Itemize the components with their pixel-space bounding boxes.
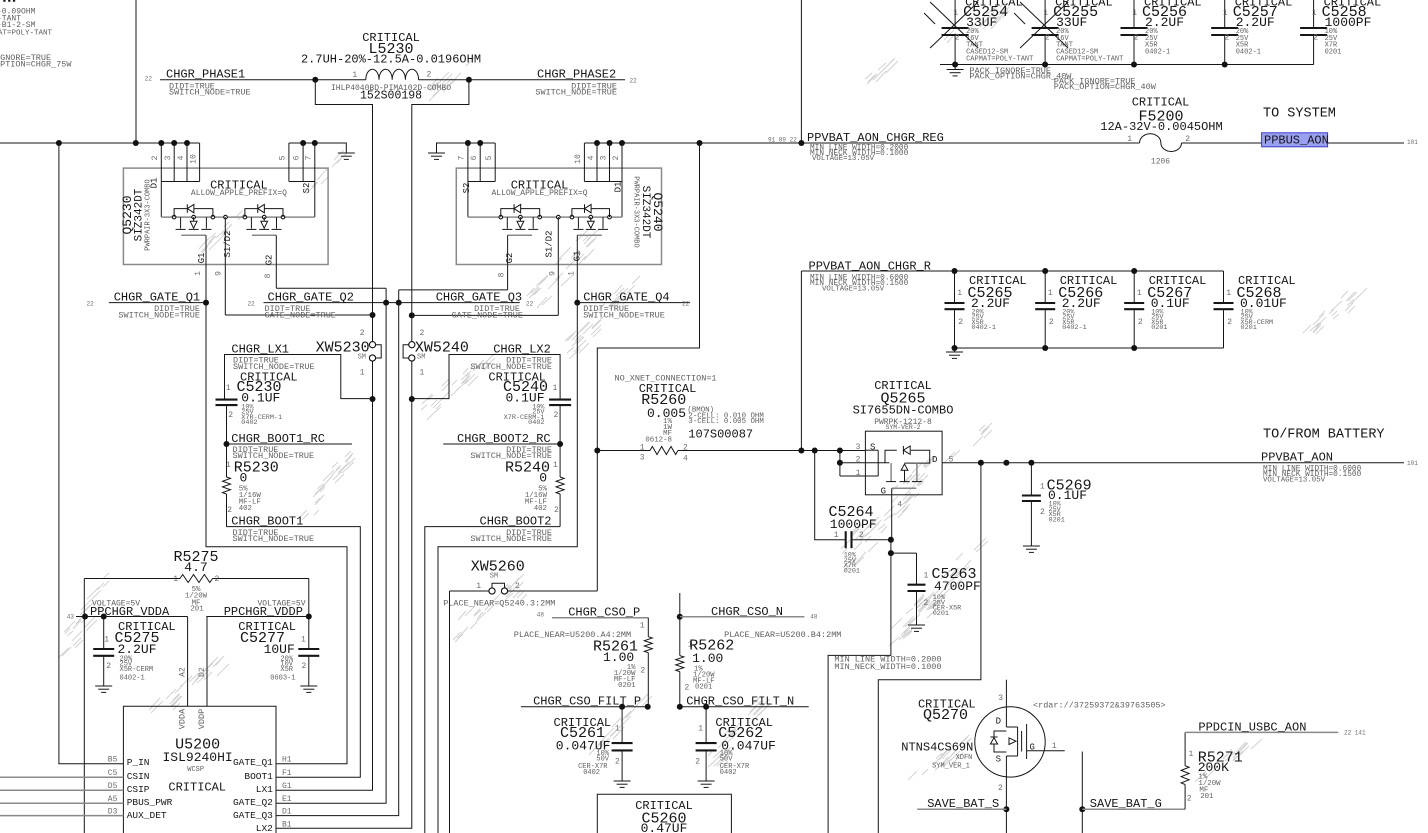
wire net SAVE_BAT_G [1079, 752, 1185, 833]
svg-text:2.7UH-20%-12.5A-0.0196OHM: 2.7UH-20%-12.5A-0.0196OHM [301, 53, 481, 67]
svg-text:1: 1 [1040, 483, 1045, 492]
svg-text:91 89 22: 91 89 22 [768, 137, 797, 144]
svg-text:CHGR_LX1: CHGR_LX1 [231, 342, 289, 356]
svg-text:1: 1 [698, 725, 703, 734]
svg-text:SM: SM [358, 353, 366, 361]
svg-text:0402-1: 0402-1 [972, 324, 996, 332]
wire net PPVBAT_AON_CHGR_G3H (R5260 left, to Q5240/XW5260) [594, 143, 699, 591]
wire net CHGR_CSO_N [677, 593, 805, 620]
svg-text:CHGR_LX2: CHGR_LX2 [493, 342, 551, 356]
svg-text:6: 6 [293, 155, 302, 160]
wire net CHGR_LX1 (XW5230 to U5200) [276, 361, 376, 790]
svg-text:VOLTAGE=13.05V: VOLTAGE=13.05V [812, 155, 875, 163]
svg-text:3: 3 [856, 443, 861, 452]
wire net CHGR_CSO_FILT_P [521, 704, 651, 710]
node PPVBAT_AON label [1261, 428, 1418, 485]
svg-text:LX2: LX2 [256, 823, 273, 833]
wire cap bank bottom rail to ground [952, 345, 1224, 352]
svg-text:B1: B1 [282, 820, 292, 829]
wire net CHGR_GATE_Q4 [438, 300, 690, 833]
wire S1/D2 lead pin 9 Q5240 [557, 217, 559, 315]
capacitor C5257 [1211, 0, 1292, 65]
svg-text:TO SYSTEM: TO SYSTEM [1263, 107, 1336, 122]
svg-text:0201: 0201 [1151, 324, 1167, 332]
svg-text:2: 2 [515, 582, 520, 591]
capacitor C5240 [488, 370, 571, 444]
svg-text:2: 2 [151, 155, 160, 160]
inductor L5230 [301, 31, 481, 103]
svg-text:101: 101 [1407, 460, 1418, 467]
fuse F5200 [1100, 96, 1222, 167]
svg-text:SYM-VER-2: SYM-VER-2 [885, 424, 920, 431]
svg-text:4: 4 [177, 155, 186, 160]
svg-text:A5: A5 [108, 795, 118, 804]
wire net CHGR_LX2 label wire [412, 355, 560, 400]
node PACK_IGNORE notes [969, 66, 1156, 92]
svg-text:1: 1 [953, 9, 958, 18]
svg-text:0402: 0402 [583, 769, 600, 777]
svg-text:22: 22 [630, 78, 638, 85]
svg-text:VOLTAGE=13.05V: VOLTAGE=13.05V [822, 286, 885, 294]
svg-text:2: 2 [228, 411, 233, 420]
svg-text:SM: SM [490, 573, 498, 581]
svg-text:X5R-CERM: X5R-CERM [120, 666, 154, 674]
svg-text:1: 1 [640, 622, 645, 631]
svg-text:22: 22 [682, 301, 690, 308]
capacitor C5258 [1300, 0, 1381, 65]
wire net CHGR_PHASE1 [160, 77, 376, 342]
svg-text:G1: G1 [197, 253, 207, 264]
svg-text:C5: C5 [108, 769, 118, 778]
svg-text:CHGR_CSO_FILT_N: CHGR_CSO_FILT_N [686, 695, 794, 709]
svg-text:<rdar://37259372&39763505>: <rdar://37259372&39763505> [1033, 700, 1166, 710]
svg-text:1: 1 [1137, 289, 1142, 298]
transistor Q5240 internals (FET pair symbols) [468, 204, 622, 315]
wire net CHGR_BOOT2_RC [443, 441, 563, 447]
resistor R5275 [84, 549, 308, 614]
svg-text:SWITCH_NODE=TRUE: SWITCH_NODE=TRUE [583, 310, 665, 320]
svg-text:0.47UF: 0.47UF [641, 821, 688, 833]
svg-text:1.00: 1.00 [603, 650, 634, 665]
resistor R5261 [593, 618, 652, 707]
capacitor C5264 [815, 451, 891, 576]
svg-text:3: 3 [998, 694, 1003, 703]
svg-text:1: 1 [173, 575, 178, 584]
transistor Q5270 NTNS4CS69N [901, 697, 1165, 777]
svg-text:1000PF: 1000PF [830, 517, 877, 532]
svg-text:4: 4 [683, 455, 688, 464]
svg-text:B5: B5 [108, 756, 118, 765]
svg-text:AT=POLY-TANT: AT=POLY-TANT [0, 30, 53, 38]
pin D5 CSIP of U5200 + wire from page edge [0, 782, 150, 795]
wire net PPVBAT_AON_CHGR_R cap bank top rail [801, 268, 1223, 274]
svg-text:PACK_OPTION=CHGR_40W: PACK_OPTION=CHGR_40W [1054, 82, 1157, 92]
svg-text:SWITCH_NODE=TRUE: SWITCH_NODE=TRUE [535, 88, 617, 98]
svg-text:22 141: 22 141 [1344, 730, 1366, 737]
svg-text:48: 48 [810, 614, 818, 621]
svg-text:CAPMAT=POLY-TANT: CAPMAT=POLY-TANT [966, 56, 1033, 64]
wire net PPDCIN_USBC_AON [1185, 731, 1338, 733]
svg-text:7: 7 [458, 155, 467, 160]
svg-text:ALLOW_APPLE_PREFIX=Q: ALLOW_APPLE_PREFIX=Q [491, 189, 587, 198]
svg-text:GATE_Q2: GATE_Q2 [233, 797, 273, 808]
svg-text:TO/FROM BATTERY: TO/FROM BATTERY [1263, 428, 1385, 443]
svg-text:CHGR_GATE_Q1: CHGR_GATE_Q1 [114, 291, 200, 305]
node CHGR_BOOT2_RC label [457, 432, 552, 461]
capacitor C5266 [1035, 271, 1117, 348]
svg-text:S2: S2 [462, 183, 472, 194]
svg-text:SWITCH_NODE=TRUE: SWITCH_NODE=TRUE [470, 534, 552, 544]
svg-text:2: 2 [958, 318, 963, 327]
svg-text:OPTION=CHGR_75W: OPTION=CHGR_75W [0, 60, 72, 70]
svg-text:P_IN: P_IN [127, 757, 150, 768]
wire vertical from top edge to bus at x=801 [800, 0, 802, 143]
svg-text:2: 2 [106, 662, 111, 671]
svg-text:GATE_NODE=TRUE: GATE_NODE=TRUE [452, 310, 523, 320]
svg-text:2: 2 [1227, 318, 1232, 327]
capacitor C5269 [1022, 463, 1092, 546]
svg-text:ALLOW_APPLE_PREFIX=Q: ALLOW_APPLE_PREFIX=Q [191, 189, 287, 198]
svg-text:0201: 0201 [618, 682, 635, 690]
node CHGR_PHASE2 label [535, 68, 637, 98]
svg-text:ISL9240HI: ISL9240HI [162, 750, 232, 765]
svg-text:E1: E1 [282, 795, 292, 804]
wire net CHGR_PHASE2 [409, 77, 625, 342]
transistor Q5240 (dual P-FET SIZ342DT) box [456, 168, 665, 264]
svg-text:0201: 0201 [1241, 324, 1257, 332]
svg-text:0402-1: 0402-1 [120, 675, 145, 683]
svg-text:BOOT1: BOOT1 [244, 771, 273, 782]
svg-text:CHGR_CSO_N: CHGR_CSO_N [711, 605, 783, 619]
resistor R5262 [676, 617, 734, 707]
node PPDCIN_USBC_AON label [1198, 720, 1366, 736]
svg-text:LX1: LX1 [256, 784, 273, 795]
resistor R5230 [223, 444, 279, 527]
svg-text:8: 8 [264, 273, 273, 278]
ground symbol (C5261) [614, 780, 631, 782]
svg-text:1: 1 [1223, 9, 1228, 18]
svg-text:PPCHGR_VDDP: PPCHGR_VDDP [224, 605, 303, 619]
wire net PPVBAT_AON_CHGR_R (R5260 right to Q5265) [678, 271, 865, 454]
svg-text:2: 2 [615, 758, 620, 767]
svg-text:22: 22 [145, 76, 153, 83]
svg-text:1: 1 [640, 444, 645, 453]
svg-text:0201: 0201 [844, 567, 860, 575]
svg-text:F1: F1 [282, 769, 292, 778]
svg-text:CHGR_BOOT1_RC: CHGR_BOOT1_RC [231, 432, 325, 446]
svg-text:0402: 0402 [528, 419, 544, 427]
svg-text:1206: 1206 [1151, 157, 1170, 166]
svg-text:2: 2 [998, 784, 1003, 793]
svg-text:0201: 0201 [1049, 516, 1065, 524]
svg-text:1: 1 [1226, 289, 1231, 298]
svg-text:D: D [996, 717, 1001, 727]
svg-text:1: 1 [1312, 9, 1317, 18]
svg-text:1: 1 [1052, 742, 1057, 751]
wire net CHGR_LX1 label wire [225, 355, 373, 400]
svg-text:SI7655DN-COMBO: SI7655DN-COMBO [853, 404, 954, 418]
clipped part text fragments top-left [0, 0, 53, 38]
wire net PPCHGR_VDDA [76, 579, 188, 833]
wire net CSIN sense route (PPVBAT to bottom) [878, 463, 981, 833]
node PPCHGR_VDDP label [224, 600, 306, 619]
svg-text:SM: SM [417, 353, 425, 361]
svg-text:2: 2 [955, 34, 960, 43]
svg-text:0603-1: 0603-1 [270, 675, 295, 683]
svg-text:1: 1 [1043, 9, 1048, 18]
svg-text:8: 8 [498, 272, 507, 277]
pin D3 AUX_DET of U5200 + wire from page edge [0, 807, 167, 821]
svg-text:2: 2 [924, 599, 929, 608]
ground symbol (C5265 bank) [946, 351, 963, 353]
capacitor C5261 [554, 707, 633, 781]
svg-text:1: 1 [924, 572, 929, 581]
svg-text:S: S [870, 443, 875, 453]
svg-text:G1: G1 [573, 251, 583, 262]
svg-text:22: 22 [247, 301, 255, 308]
svg-text:22: 22 [86, 301, 94, 308]
svg-text:SIZ342DT: SIZ342DT [639, 186, 651, 239]
svg-text:SYM_VER_1: SYM_VER_1 [932, 763, 970, 771]
svg-text:0402-1: 0402-1 [1145, 48, 1170, 56]
node CHGR_GATE_Q4 label [583, 291, 689, 321]
svg-text:2: 2 [420, 329, 425, 338]
capacitor C5268 [1214, 271, 1296, 348]
svg-text:CRITICAL: CRITICAL [1132, 96, 1190, 110]
svg-text:10: 10 [574, 154, 583, 164]
wire net PPCHGR_VDDP [206, 579, 311, 707]
svg-text:1: 1 [1189, 750, 1194, 759]
transistor Q5270 internals [990, 717, 1035, 794]
svg-text:1: 1 [352, 71, 357, 80]
svg-text:2: 2 [1138, 318, 1143, 327]
svg-text:CHGR_PHASE1: CHGR_PHASE1 [166, 68, 245, 82]
svg-text:VOLTAGE=13.05V: VOLTAGE=13.05V [1263, 477, 1326, 485]
svg-text:1: 1 [553, 461, 558, 470]
svg-text:0: 0 [539, 471, 547, 486]
svg-text:PBUS_PWR: PBUS_PWR [127, 797, 173, 808]
ground symbol (C5269) [1023, 545, 1040, 547]
svg-text:0402-1: 0402-1 [1062, 324, 1086, 332]
node CHGR_PHASE1 label [145, 68, 251, 98]
node CHGR_BOOT1 label [231, 515, 314, 545]
svg-text:NTNS4CS69N: NTNS4CS69N [901, 741, 973, 755]
pin comb Q5240 pins 10,4,3,2 (D1) [574, 143, 624, 217]
svg-text:201: 201 [190, 606, 204, 614]
ground symbol (C5262) [698, 780, 715, 782]
svg-text:1: 1 [553, 384, 558, 393]
jumper XW5260 [443, 559, 597, 609]
svg-text:CHGR_BOOT1: CHGR_BOOT1 [231, 515, 303, 529]
svg-text:1: 1 [615, 725, 620, 734]
svg-text:CHGR_BOOT2: CHGR_BOOT2 [480, 515, 552, 529]
svg-text:2: 2 [683, 444, 688, 453]
capacitor C5230 [216, 370, 298, 444]
svg-text:S1/D2: S1/D2 [223, 230, 233, 257]
capacitor C5254 [924, 0, 1033, 65]
svg-text:1: 1 [104, 636, 109, 645]
svg-text:3: 3 [640, 454, 645, 463]
svg-text:1: 1 [420, 369, 425, 378]
svg-text:2: 2 [215, 575, 220, 584]
pin F1 BOOT1 of U5200 [244, 769, 291, 782]
svg-text:1: 1 [360, 369, 365, 378]
svg-text:9: 9 [215, 271, 224, 276]
wire net CHGR_BOOT2 [425, 527, 560, 833]
svg-text:48: 48 [537, 612, 545, 619]
svg-text:1: 1 [1132, 9, 1137, 18]
node PPBUS_AON label (highlighted) [1262, 107, 1419, 148]
svg-text:XDFN: XDFN [956, 754, 973, 762]
svg-text:2: 2 [1134, 34, 1139, 43]
svg-text:SWITCH_NODE=TRUE: SWITCH_NODE=TRUE [169, 88, 251, 98]
svg-text:PLACE_NEAR=U5200.B4:2MM: PLACE_NEAR=U5200.B4:2MM [724, 630, 841, 640]
svg-text:4700PF: 4700PF [934, 579, 981, 594]
wire XW5260 pin1 to bottom edge [449, 591, 451, 833]
op-amp U5200 charger IC ISL9240HI [123, 706, 276, 833]
svg-text:2: 2 [1045, 34, 1050, 43]
svg-text:CHGR_GATE_Q4: CHGR_GATE_Q4 [583, 291, 669, 305]
svg-text:S1/D2: S1/D2 [545, 230, 555, 257]
svg-text:S2: S2 [302, 183, 312, 194]
node CHGR_GATE_Q2 label [247, 291, 353, 321]
svg-text:6: 6 [470, 155, 479, 160]
clipped property text IGNORE/OPTION [0, 53, 72, 70]
svg-text:2: 2 [1187, 795, 1192, 804]
svg-text:G1: G1 [282, 782, 292, 791]
svg-text:PPCHGR_VDDA: PPCHGR_VDDA [90, 605, 170, 619]
ground symbol (C5277) [300, 685, 317, 687]
svg-text:GATE_Q3: GATE_Q3 [233, 810, 273, 821]
svg-text:PPBUS_AON: PPBUS_AON [1264, 134, 1329, 148]
pin E1 GATE_Q2 of U5200 [233, 795, 292, 808]
svg-text:1: 1 [476, 582, 481, 591]
wire ground segment Q5230 S2 pins [289, 140, 346, 153]
svg-text:3: 3 [164, 155, 173, 160]
node CHGR_GATE_Q1 label [86, 291, 200, 321]
svg-text:2: 2 [640, 667, 645, 676]
svg-text:4: 4 [897, 501, 902, 510]
svg-text:AUX_DET: AUX_DET [127, 810, 167, 821]
svg-text:2: 2 [554, 411, 559, 420]
svg-text:SAVE_BAT_S: SAVE_BAT_S [927, 797, 999, 811]
svg-text:S: S [996, 755, 1001, 765]
svg-text:9: 9 [549, 271, 558, 276]
svg-text:2: 2 [1313, 34, 1318, 43]
node CHGR_BOOT2 label [470, 515, 552, 545]
resistor R5271 [1181, 732, 1243, 809]
pin 3 drain wire of Q5270 [998, 680, 1006, 727]
wire net CHGR_LX2 (XW5240 to U5200) [276, 361, 415, 828]
svg-text:107S00087: 107S00087 [688, 427, 753, 441]
wire net SAVE_BAT_G (Q5265 gate chain) [828, 537, 916, 833]
svg-text:2: 2 [427, 71, 432, 80]
wire net SAVE_BAT_S [917, 777, 1009, 833]
pin 3/2/1 S connections of Q5265 [837, 443, 890, 479]
svg-text:CHGR_BOOT2_RC: CHGR_BOOT2_RC [457, 432, 551, 446]
pin comb Q5230 pins 2,3,4,10 (D1) [150, 143, 200, 217]
svg-text:CHGR_CSO_P: CHGR_CSO_P [568, 606, 640, 620]
svg-text:Q5240: Q5240 [650, 192, 665, 231]
svg-text:VDDP: VDDP [197, 709, 207, 729]
ground symbol (top cap bank) [947, 69, 964, 71]
svg-text:Q5270: Q5270 [923, 707, 968, 724]
svg-text:10: 10 [190, 154, 199, 164]
svg-text:PWRPAIR-3X3-COMBO: PWRPAIR-3X3-COMBO [632, 176, 640, 247]
svg-text:H1: H1 [282, 756, 292, 765]
svg-text:VDDA: VDDA [178, 708, 188, 729]
svg-text:402: 402 [534, 505, 547, 513]
wire net CHGR_GATE_Q1 [109, 300, 347, 764]
capacitor C5262 [695, 707, 776, 781]
svg-text:2: 2 [695, 758, 700, 767]
pin A2 VDDA of U5200 [178, 667, 188, 729]
wire net CHGR_CSO_FILT_N [677, 704, 809, 710]
capacitor C5265 [945, 271, 1027, 348]
svg-text:2: 2 [1040, 508, 1045, 517]
node CHGR_LX2 label [470, 342, 552, 372]
pin A5 PBUS_PWR of U5200 + wire from page edge [0, 795, 173, 808]
svg-text:3-CELL: 0.005 OHM: 3-CELL: 0.005 OHM [688, 418, 763, 426]
wire net PPVBAT_AON to battery [942, 460, 1404, 466]
svg-text:4: 4 [587, 155, 596, 160]
svg-text:2: 2 [612, 155, 621, 160]
capacitor C5267 [1124, 271, 1206, 348]
capacitor C5255 [1014, 0, 1123, 65]
svg-text:101: 101 [1407, 139, 1418, 146]
wire top capacitor bank rail with ground [940, 62, 1314, 70]
svg-text:0402: 0402 [241, 419, 257, 427]
svg-text:4.7: 4.7 [184, 560, 207, 575]
wire net PPVBAT_AON_CHGR_REG segment D with junctions [584, 140, 1404, 146]
svg-text:MIN_NECK_WIDTH=0.1000: MIN_NECK_WIDTH=0.1000 [834, 662, 941, 672]
svg-text:2: 2 [360, 329, 365, 338]
capacitor C5263 [908, 553, 981, 625]
svg-text:1: 1 [856, 469, 861, 478]
pin B5 P_IN of U5200 [108, 756, 150, 769]
pin 1 gate stub of Q5270 [1027, 742, 1065, 751]
svg-text:1: 1 [834, 531, 839, 540]
svg-text:1: 1 [568, 271, 577, 276]
svg-text:7: 7 [305, 155, 314, 160]
svg-text:D5: D5 [108, 782, 118, 791]
svg-text:D: D [932, 455, 937, 465]
svg-text:PPVBAT_AON: PPVBAT_AON [1261, 450, 1333, 464]
svg-text:1: 1 [194, 271, 203, 276]
pin comb Q5240 pins 7,6,5 (S2) [458, 143, 496, 217]
svg-text:X5R: X5R [280, 666, 293, 674]
pin comb Q5230 pins 5,6,7 (S2) [279, 143, 315, 217]
svg-text:152S00198: 152S00198 [360, 90, 422, 103]
svg-text:SWITCH_NODE=TRUE: SWITCH_NODE=TRUE [233, 534, 315, 544]
ground symbol (C5275) [95, 685, 112, 687]
svg-text:1: 1 [1127, 135, 1132, 144]
capacitor C5256 [1121, 0, 1202, 65]
svg-text:0612-8: 0612-8 [645, 436, 672, 444]
svg-text:2: 2 [302, 662, 307, 671]
pin 5 D of Q5265 [932, 455, 954, 465]
svg-text:SWITCH_NODE=TRUE: SWITCH_NODE=TRUE [118, 310, 200, 320]
capacitor C5260 (clipped at bottom) [597, 794, 731, 833]
pin B1 LX2 of U5200 [256, 820, 292, 833]
node CHGR_GATE_Q3 label [436, 291, 534, 321]
svg-text:201: 201 [1200, 793, 1214, 801]
svg-text:2: 2 [1049, 318, 1054, 327]
pin C5 CSIN of U5200 + wire from page edge [0, 769, 150, 782]
wire net PPVBAT_AON_CHGR_REG: main bus segment A (left) [0, 140, 200, 146]
ground symbol (Q5230 S2) [338, 152, 355, 154]
svg-text:D2: D2 [198, 667, 207, 677]
